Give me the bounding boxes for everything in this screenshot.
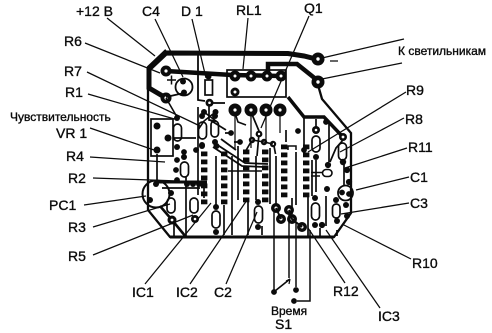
pad RL1 row2 — [229, 104, 287, 117]
wire thick trace T1 top bus — [149, 53, 316, 98]
capacitor C4 — [176, 79, 193, 96]
wire trace 7 — [245, 141, 252, 153]
wire leader IC1 — [145, 203, 211, 284]
resistor R11 — [339, 143, 347, 165]
wire trace 17 — [315, 160, 317, 192]
photocell PC1 — [143, 181, 170, 208]
wire thick trace T4 right edge — [288, 97, 342, 136]
svg-text:IC2: IC2 — [176, 284, 198, 300]
wire trace 34 — [325, 196, 327, 226]
wire leader lamp2 — [322, 63, 402, 79]
wire trace 19 — [328, 124, 330, 162]
svg-text:Чувствительность: Чувствительность — [10, 110, 111, 124]
svg-text:R10: R10 — [412, 255, 438, 271]
wire trace 2 — [209, 104, 215, 121]
wire trace 32 — [223, 205, 225, 235]
svg-text:R12: R12 — [333, 283, 359, 299]
pad RL1 coil — [231, 88, 240, 97]
wire upper diagonal — [221, 139, 236, 150]
svg-text:R3: R3 — [68, 219, 86, 235]
transistor Q1 — [249, 131, 276, 148]
svg-text:C2: C2 — [214, 284, 232, 300]
wire leader R8 — [340, 118, 404, 152]
wire trace 15 — [261, 226, 263, 235]
wire trace 33 — [307, 196, 309, 236]
svg-text:IC1: IC1 — [132, 284, 154, 300]
wire leader C4 — [155, 19, 183, 77]
switch S1 wires — [274, 212, 310, 301]
wire trace 18 — [315, 119, 317, 127]
wire PC1 bus — [155, 181, 207, 184]
plus mark — [167, 76, 176, 85]
resistor R8 — [211, 113, 219, 145]
resistor R6 — [199, 113, 207, 148]
wire trace 11 — [295, 152, 297, 205]
wire from pad166 — [166, 98, 177, 117]
wire trace 5 — [237, 146, 239, 200]
wire S1 pole — [273, 212, 275, 290]
svg-text:R7: R7 — [64, 63, 82, 79]
wire leader R10 — [342, 224, 411, 259]
wire trace 24 — [156, 154, 158, 180]
svg-text:RL1: RL1 — [236, 2, 262, 18]
IC3 footprint — [281, 145, 309, 198]
wire leader R12 — [308, 228, 345, 283]
resistor R10 — [312, 195, 320, 228]
wire PC1 bus lower — [162, 187, 200, 189]
wire S1 contact b — [295, 222, 297, 287]
capacitor C3 — [333, 197, 341, 224]
switch S1 — [271, 279, 299, 304]
diode D1 — [205, 74, 214, 107]
wire leader R3 — [93, 204, 170, 227]
wire trace 22 — [319, 228, 321, 236]
capacitor C1 — [338, 186, 353, 201]
wire IC3 notch — [288, 146, 296, 150]
wire leader C3 — [341, 203, 409, 214]
resistor R1 — [174, 115, 182, 150]
pad row mid — [184, 181, 207, 187]
svg-text:R6: R6 — [64, 33, 82, 49]
wire leader RL1 — [243, 18, 248, 69]
wire trace 29 — [257, 137, 276, 156]
svg-text:C1: C1 — [410, 169, 428, 185]
wire leader R6 — [85, 43, 160, 73]
svg-text:C4: C4 — [142, 3, 160, 19]
wire trace 31 — [330, 140, 343, 162]
wire leader VR1 — [90, 128, 154, 150]
svg-text:IC3: IC3 — [378, 308, 400, 324]
resistor horizontal R_h — [311, 170, 332, 177]
board outline — [148, 50, 351, 237]
relay RL1 outline — [227, 70, 286, 97]
pad lamp2 — [312, 76, 325, 89]
resistor R2 — [181, 154, 189, 177]
trimmer VR1 — [151, 119, 173, 156]
pad P12V — [161, 66, 172, 77]
wire trace 12 — [291, 198, 293, 214]
wire trace 6 — [247, 202, 249, 235]
wire leader +12V — [107, 18, 155, 56]
wire S1 contact c — [297, 230, 310, 301]
svg-text:S1: S1 — [275, 316, 292, 332]
wire leader R2 — [93, 178, 179, 181]
node X pads — [198, 109, 219, 130]
svg-text:VR 1: VR 1 — [56, 125, 87, 141]
wire trace 9 — [269, 148, 271, 204]
wire trace 25 — [173, 224, 175, 236]
wire trace 26 — [203, 187, 205, 198]
svg-text:R11: R11 — [408, 139, 433, 155]
wire trace 16 — [285, 130, 287, 142]
wire thick trace T3 — [166, 71, 281, 76]
pad RL1 row1 — [230, 71, 287, 82]
svg-text:К светильникам: К светильникам — [398, 44, 486, 58]
wire trace 4 — [231, 156, 233, 235]
wire leader R4 — [90, 157, 165, 162]
wire leader IC3 — [326, 230, 380, 308]
wire trace 20 — [343, 164, 345, 186]
pad T4 end — [339, 133, 347, 141]
wire thick trace T2 — [268, 64, 317, 80]
wire D1 feed — [198, 55, 205, 101]
resistor R3 — [167, 190, 175, 213]
svg-text:R4: R4 — [66, 148, 84, 164]
wire pad to C4 — [166, 93, 184, 97]
wire trace 28 — [225, 133, 240, 142]
svg-text:R2: R2 — [68, 170, 86, 186]
wire trace 30 — [303, 118, 305, 148]
capacitor C2 — [255, 199, 263, 230]
resistor R4 — [212, 204, 220, 235]
wire leader C1 — [356, 177, 409, 190]
wire tick — [330, 60, 338, 62]
wire S1 contact a — [288, 214, 290, 278]
svg-text:D 1: D 1 — [181, 3, 203, 19]
wire trace 3 — [215, 156, 217, 206]
wire trace 14 — [185, 177, 187, 237]
svg-text:+12 В: +12 В — [76, 3, 113, 19]
pad cluster bottom — [271, 203, 307, 232]
wire relay to Q1 — [251, 112, 259, 131]
pad column tops — [199, 143, 205, 149]
wire trace 10 — [275, 156, 277, 204]
wire D1 out — [213, 102, 225, 104]
wire leader PC1 — [84, 196, 146, 205]
pad junction left — [168, 216, 177, 225]
wire leader lamp1 — [322, 39, 404, 58]
pad sundry small — [173, 119, 352, 228]
wire leader Q1 — [261, 16, 309, 128]
svg-text:R5: R5 — [68, 248, 86, 264]
wire leader D1 — [192, 19, 206, 78]
svg-text:R8: R8 — [405, 111, 423, 127]
resistor R9 — [312, 126, 320, 160]
wire trace 21 — [336, 230, 338, 236]
pad lamp1 — [312, 53, 325, 66]
wire leader C2 — [226, 212, 257, 284]
wire trace 27 — [210, 120, 226, 130]
wire leader R5 — [93, 215, 193, 255]
svg-text:R9: R9 — [406, 82, 424, 98]
pad T1 end left — [161, 93, 172, 104]
wire leader R7 — [87, 72, 200, 126]
wire leader R11 — [345, 148, 407, 168]
svg-text:PC1: PC1 — [49, 197, 76, 213]
svg-text:Q1: Q1 — [304, 0, 323, 16]
svg-text:R1: R1 — [65, 84, 83, 100]
IC2 footprint — [243, 150, 268, 203]
wire mesh center — [157, 104, 344, 237]
wire trace 13 — [311, 160, 313, 196]
wire PC1 to pad — [160, 206, 186, 237]
svg-text:C3: C3 — [410, 195, 428, 211]
wire bus diagonal pair — [213, 144, 268, 167]
resistor R5 — [190, 198, 199, 223]
wire trace 1 — [197, 107, 199, 195]
wire relay drops — [235, 115, 280, 150]
wire trace 8 — [255, 156, 257, 200]
wire trace 23 — [173, 137, 196, 139]
IC1 footprint — [201, 152, 227, 205]
wire leader R9 — [308, 92, 406, 152]
wire horizontal link — [228, 170, 262, 172]
wire bottom edge — [170, 236, 334, 239]
wire leader R1 — [88, 94, 178, 120]
wire leader IC2 — [190, 200, 247, 284]
